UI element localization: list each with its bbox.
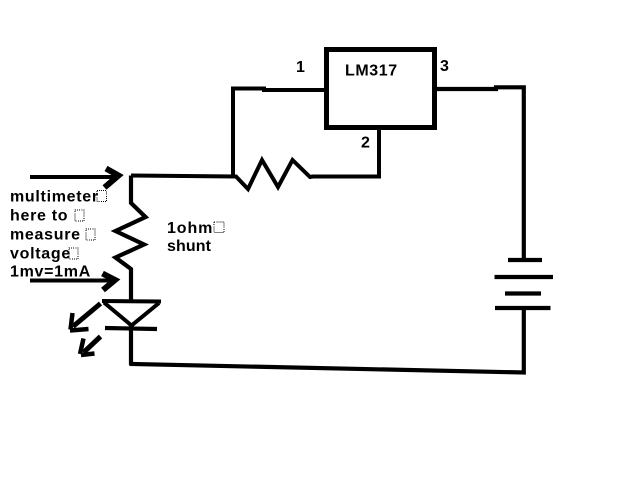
- svg-text:1mv=1mA: 1mv=1mA: [10, 264, 91, 281]
- svg-text:1ohm: 1ohm: [167, 220, 213, 237]
- svg-text:3: 3: [440, 58, 449, 75]
- svg-text:here to: here to: [10, 208, 68, 225]
- svg-text:2: 2: [361, 135, 370, 152]
- svg-text:multimeter: multimeter: [10, 189, 99, 206]
- svg-text:voltage: voltage: [10, 246, 71, 263]
- svg-text:LM317: LM317: [345, 63, 398, 80]
- svg-text:measure: measure: [10, 227, 81, 244]
- svg-text:1: 1: [296, 59, 305, 76]
- svg-text:shunt: shunt: [167, 238, 212, 255]
